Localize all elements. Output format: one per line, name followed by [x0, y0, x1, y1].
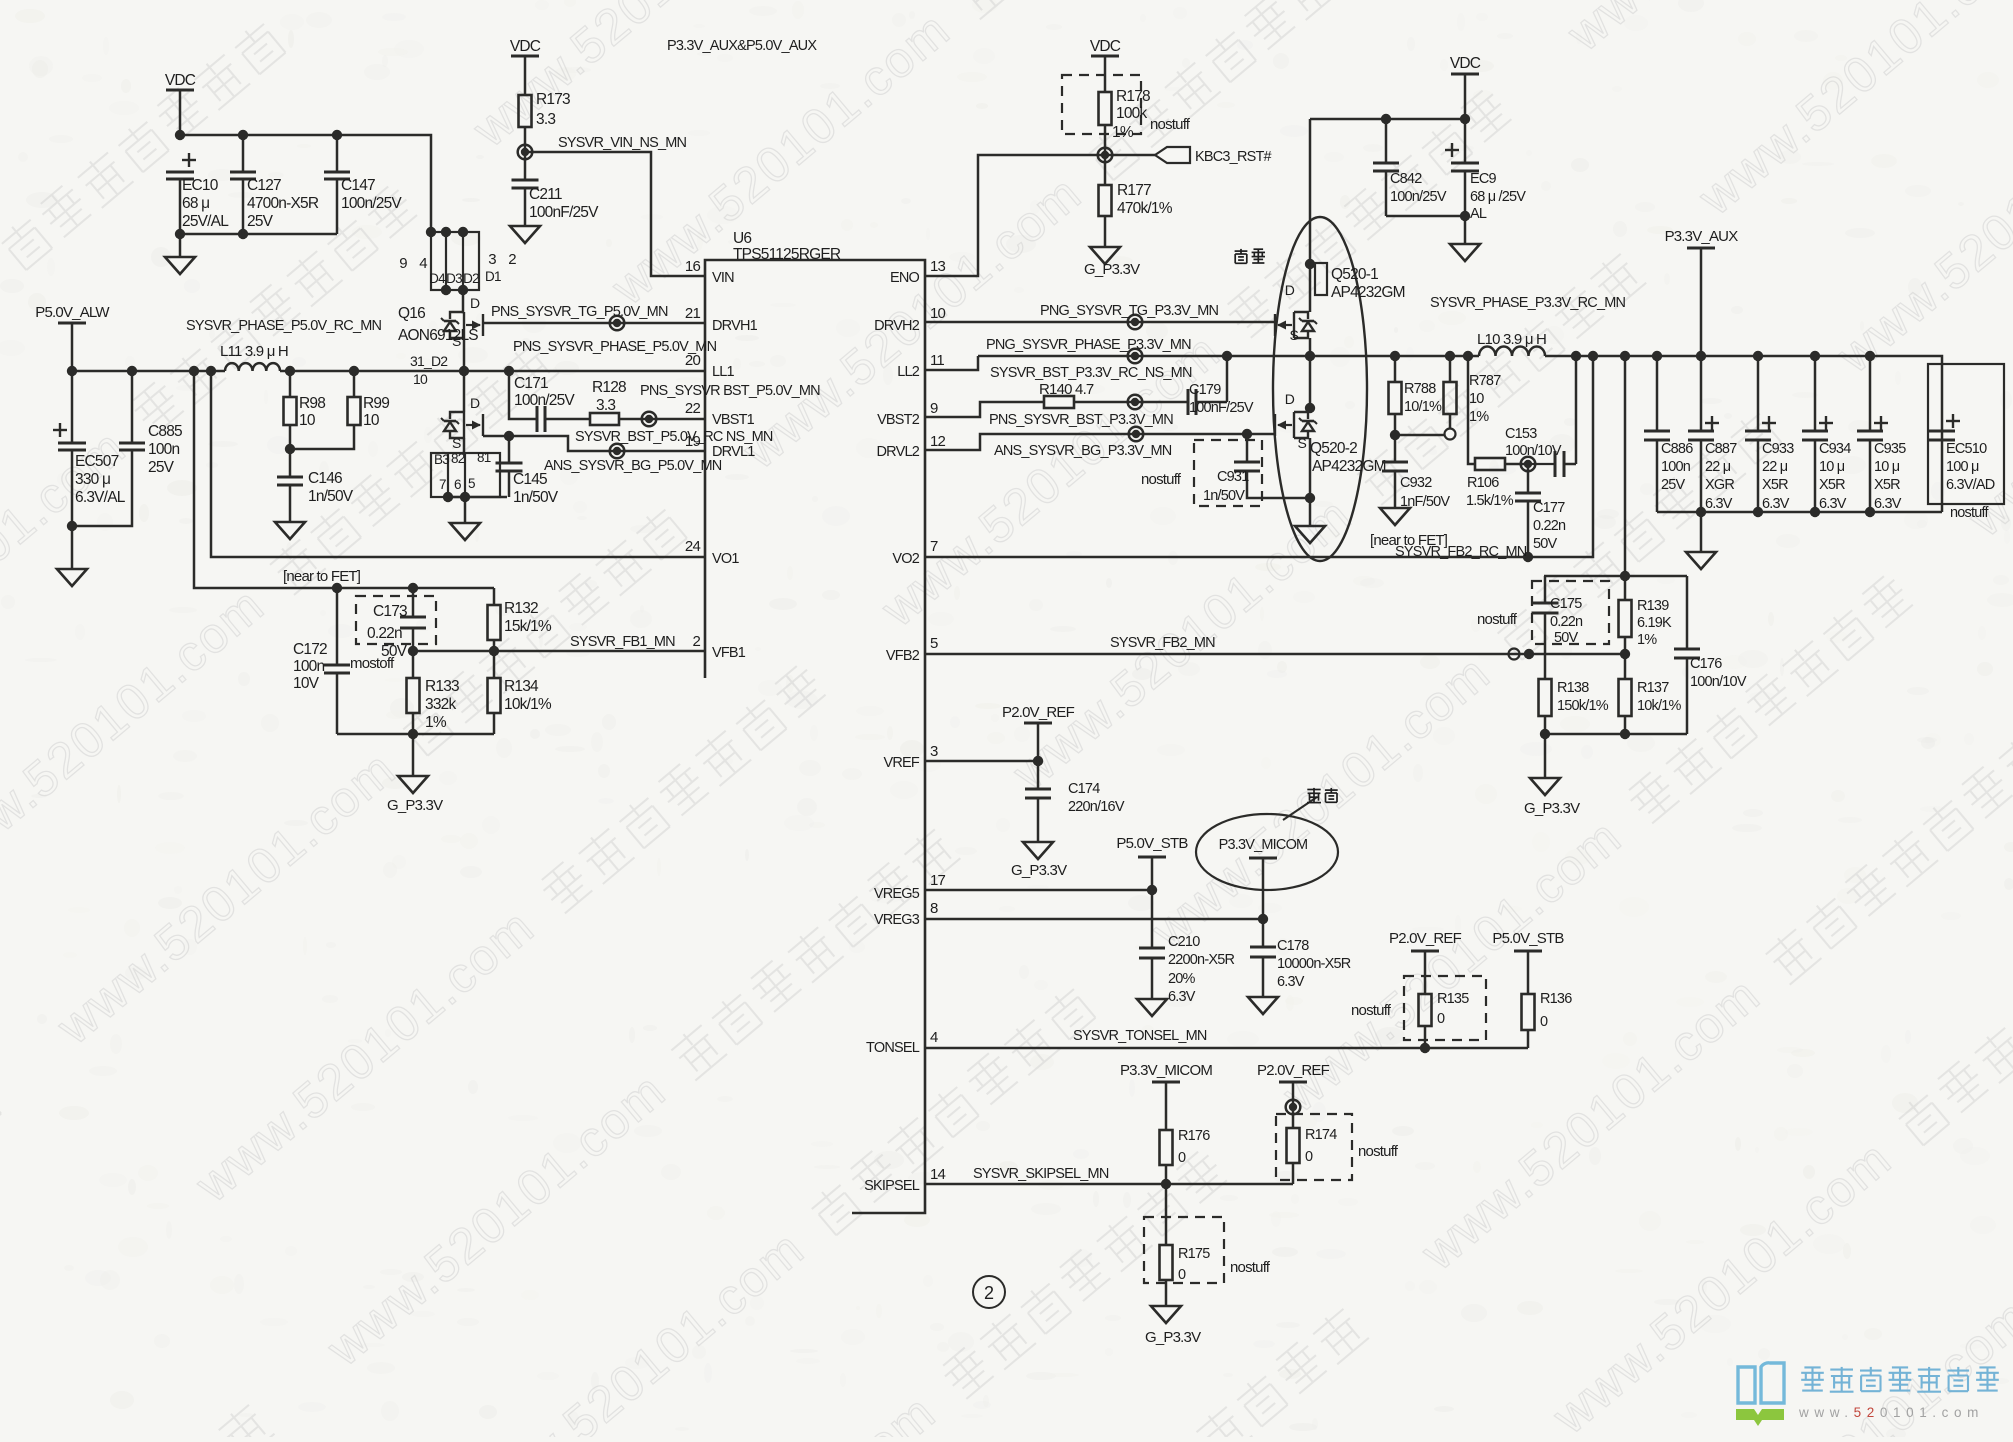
- svg-text:SYSVR_SKIPSEL_MN: SYSVR_SKIPSEL_MN: [973, 1166, 1109, 1182]
- wire R177 to ground: [1104, 216, 1107, 247]
- resistor R176 0: [1160, 1130, 1173, 1165]
- svg-text:0: 0: [1540, 1014, 1548, 1030]
- svg-text:R139: R139: [1637, 598, 1669, 614]
- junction dot R788 bottom: [1390, 430, 1400, 440]
- capacitor EC507 330u 6.3V/AL: [53, 423, 67, 437]
- junction dots on FB1 net: [408, 646, 418, 656]
- svg-text:SYSVR_FB1_MN: SYSVR_FB1_MN: [570, 634, 675, 650]
- svg-text:mostoff: mostoff: [350, 655, 395, 672]
- label duanlu short: [1307, 788, 1338, 803]
- op-amp U6 TPS51125RGER outline: [705, 260, 925, 1213]
- svg-text:C935: C935: [1874, 441, 1906, 457]
- wire VREF pin 3: [925, 760, 1038, 763]
- svg-text:100n: 100n: [148, 441, 179, 458]
- wire R99 to R98 bottom junction: [290, 425, 354, 449]
- svg-text:EC10: EC10: [182, 177, 219, 194]
- svg-text:VDC: VDC: [510, 38, 541, 55]
- svg-text:100n/25V: 100n/25V: [341, 195, 402, 212]
- svg-text:AP4232GM: AP4232GM: [1312, 458, 1386, 475]
- wire EC9 C842 bottom bus: [1386, 215, 1465, 218]
- svg-text:100n/10V: 100n/10V: [1690, 674, 1747, 690]
- svg-text:R133: R133: [425, 678, 459, 695]
- capacitor C175 0.22n 50V nostuff: [1544, 576, 1547, 603]
- svg-text:25V: 25V: [1661, 477, 1686, 493]
- wire FB2 bottom bus: [1544, 716, 1547, 734]
- svg-text:1%: 1%: [1469, 409, 1489, 425]
- svg-text:VO1: VO1: [712, 551, 739, 567]
- svg-text:VDC: VDC: [165, 72, 196, 89]
- junction dot R98/R99: [285, 444, 295, 454]
- ground below C174: [1023, 842, 1053, 859]
- svg-text:2: 2: [692, 633, 700, 650]
- wire output rail left of L11: [72, 370, 225, 373]
- label shaohui burned: [1235, 249, 1265, 263]
- svg-text:0.22n: 0.22n: [367, 625, 402, 642]
- ground below EC10: [165, 257, 195, 274]
- svg-text:10: 10: [413, 371, 428, 387]
- svg-text:6.3V: 6.3V: [1705, 496, 1733, 512]
- svg-text:100k: 100k: [1116, 105, 1147, 122]
- wire TONSEL pin 4 net: [925, 1047, 1528, 1050]
- svg-text:6.3V: 6.3V: [1277, 974, 1305, 990]
- wire R176 to SKIPSEL net: [1165, 1165, 1168, 1184]
- svg-text:SYSVR_VIN_NS_MN: SYSVR_VIN_NS_MN: [558, 135, 687, 151]
- wire top VDC bus: [180, 135, 431, 232]
- resistor R175 0 nostuff: [1160, 1245, 1173, 1280]
- svg-text:LL1: LL1: [712, 364, 735, 380]
- svg-text:D: D: [1285, 282, 1295, 298]
- svg-text:R176: R176: [1178, 1128, 1210, 1144]
- svg-text:6.3V/AL: 6.3V/AL: [75, 489, 126, 506]
- svg-text:PNS_SYSVR_BST_P3.3V_MN: PNS_SYSVR_BST_P3.3V_MN: [989, 412, 1173, 428]
- inductor L11 3.9uH: [225, 363, 280, 371]
- svg-text:L10 3.9 μ H: L10 3.9 μ H: [1477, 331, 1546, 348]
- resistor R788 10/1%: [1394, 356, 1397, 382]
- svg-text:VBST1: VBST1: [712, 412, 755, 428]
- svg-text:C210: C210: [1168, 934, 1200, 950]
- svg-text:6.19K: 6.19K: [1637, 615, 1672, 631]
- wire R98 bottom: [289, 425, 292, 449]
- junction dot EC9 bottom: [1460, 211, 1470, 221]
- svg-text:TONSEL: TONSEL: [866, 1040, 920, 1056]
- svg-text:VIN: VIN: [712, 270, 734, 286]
- resistor R787 10 1%: [1449, 356, 1452, 382]
- svg-text:150k/1%: 150k/1%: [1557, 698, 1609, 714]
- wire rail to R106: [1468, 356, 1475, 464]
- svg-text:332k: 332k: [425, 696, 456, 713]
- dashed box C175 nostuff: [1532, 581, 1609, 644]
- svg-text:1n/50V: 1n/50V: [513, 489, 559, 506]
- svg-text:3.3: 3.3: [596, 397, 615, 414]
- transistor Q16 high-side MOSFET: [441, 312, 483, 338]
- wire rail riser to FB2 divider top: [1624, 356, 1627, 576]
- wire DRVH1 gate net to pin 21: [483, 322, 706, 325]
- svg-text:D: D: [1285, 391, 1295, 407]
- ground G_P3.3V below FB2: [1530, 778, 1560, 795]
- svg-text:D3: D3: [446, 271, 462, 286]
- svg-text:2200n-X5R: 2200n-X5R: [1168, 952, 1234, 968]
- svg-text:1n/50V: 1n/50V: [1203, 488, 1245, 504]
- svg-text:R134: R134: [504, 678, 539, 695]
- wire cap bank bottom bus: [1657, 511, 1942, 514]
- resistor R136 0: [1522, 994, 1535, 1030]
- svg-text:D1: D1: [485, 269, 501, 284]
- svg-text:D: D: [470, 295, 480, 311]
- svg-text:25V: 25V: [148, 459, 175, 476]
- resistor R178 100k 1% nostuff: [1099, 92, 1112, 125]
- wire R788 bottom to C932: [1394, 414, 1397, 435]
- wire P3.3V_AUX to rail: [1700, 248, 1703, 356]
- wire P2.0V_REF to node: [1292, 1082, 1295, 1107]
- node ring on TG net: [610, 316, 625, 331]
- power bar P3.3V_MICOM: [1249, 857, 1277, 860]
- resistor R138 150k/1%: [1544, 654, 1547, 679]
- svg-text:[near to FET]: [near to FET]: [283, 568, 361, 585]
- svg-text:100 μ: 100 μ: [1946, 459, 1979, 475]
- svg-text:12: 12: [930, 433, 946, 450]
- svg-text:C173: C173: [373, 603, 407, 620]
- svg-text:1.5k/1%: 1.5k/1%: [1466, 493, 1514, 509]
- svg-text:R98: R98: [299, 395, 325, 412]
- svg-text:81: 81: [477, 450, 491, 465]
- wire LL2 pin 11 to phase rail: [925, 356, 978, 370]
- svg-text:R177: R177: [1117, 182, 1151, 199]
- wire to ground FB1: [412, 734, 415, 776]
- svg-text:0: 0: [1178, 1267, 1186, 1283]
- wire FB1 tap from rail: [194, 371, 494, 588]
- svg-text:R787: R787: [1469, 373, 1501, 389]
- svg-text:PNS_SYSVR_TG_P5.0V_MN: PNS_SYSVR_TG_P5.0V_MN: [491, 304, 668, 320]
- svg-text:5: 5: [930, 635, 938, 652]
- wire to ground under Q16: [464, 497, 467, 523]
- capacitor EC510 100u 6.3V/AD nostuff: [1946, 414, 1960, 428]
- svg-text:nostuff: nostuff: [1358, 1143, 1399, 1160]
- wire R140 to C179: [1074, 401, 1188, 404]
- junction dots on diode box top: [426, 227, 436, 237]
- junction dots on FB1 top wire: [332, 583, 342, 593]
- svg-text:SYSVR_PHASE_P3.3V_RC_MN: SYSVR_PHASE_P3.3V_RC_MN: [1430, 295, 1625, 311]
- svg-text:EC9: EC9: [1470, 171, 1497, 187]
- svg-text:0: 0: [1178, 1150, 1186, 1166]
- junction dot Q520 phase: [1305, 351, 1315, 361]
- capacitor C210 2200n-X5R 20% 6.3V: [1151, 890, 1154, 948]
- svg-text:22 μ: 22 μ: [1705, 459, 1731, 475]
- svg-text:X5R: X5R: [1762, 477, 1788, 493]
- junction dots on VDC bus: [175, 130, 185, 140]
- wire VDC to R173: [524, 56, 527, 95]
- svg-text:P2.0V_REF: P2.0V_REF: [1389, 930, 1462, 947]
- svg-text:22 μ: 22 μ: [1762, 459, 1788, 475]
- node SYSVR_VIN_NS_MN: [518, 145, 533, 160]
- svg-text:SYSVR_FB2_MN: SYSVR_FB2_MN: [1110, 635, 1215, 651]
- node ring P2.0V_REF: [1286, 1100, 1301, 1115]
- svg-text:B3: B3: [434, 452, 449, 467]
- capacitor C935 10u X5R 6.3V: [1874, 416, 1888, 430]
- svg-text:nostuff: nostuff: [1150, 116, 1191, 133]
- svg-text:C171: C171: [514, 375, 548, 392]
- svg-text:100n: 100n: [293, 658, 324, 675]
- svg-text:C177: C177: [1533, 500, 1565, 516]
- wire P3.3V_MICOM to VREG3 net: [1262, 858, 1265, 919]
- svg-text:LL2: LL2: [897, 364, 920, 380]
- capacitor C174 220n/16V: [1025, 789, 1051, 798]
- svg-text:100n/25V: 100n/25V: [1390, 189, 1447, 205]
- inductor L10 3.9uH: [1479, 347, 1545, 356]
- svg-text:14: 14: [930, 1166, 946, 1183]
- svg-text:SKIPSEL: SKIPSEL: [864, 1178, 920, 1194]
- svg-text:X5R: X5R: [1819, 477, 1845, 493]
- junction dot SKIPSEL: [1161, 1179, 1171, 1189]
- wire R174 to SKIPSEL net: [1292, 1163, 1295, 1184]
- svg-text:6.3V/AD: 6.3V/AD: [1946, 477, 1995, 493]
- ground below C178: [1248, 997, 1278, 1014]
- dashed box R175 nostuff: [1144, 1217, 1224, 1283]
- capacitor C211 100nF/25V: [524, 152, 527, 180]
- svg-text:SYSVR_BST_P3.3V_RC_NS_MN: SYSVR_BST_P3.3V_RC_NS_MN: [990, 365, 1192, 381]
- resistor R174 0 nostuff: [1292, 1107, 1295, 1128]
- wire Q520-1 source to rail: [1309, 338, 1312, 356]
- svg-text:PNS_SYSVR_PHASE_P5.0V_MN: PNS_SYSVR_PHASE_P5.0V_MN: [513, 339, 717, 355]
- svg-text:25V/AL: 25V/AL: [182, 213, 229, 230]
- wire phase rail L11 to pin 20 LL1: [280, 370, 706, 373]
- svg-text:100nF/25V: 100nF/25V: [529, 204, 599, 221]
- svg-text:VREG3: VREG3: [874, 912, 920, 928]
- wire R788 to R787 bottom link: [1395, 434, 1444, 437]
- node ring EN junction: [1098, 148, 1113, 163]
- ground G_P3.3V below R177: [1090, 247, 1120, 264]
- wire VO1 sense from rail to pin 24: [211, 371, 706, 557]
- capacitor C177 0.22n 50V: [1527, 464, 1530, 493]
- wire R173 to node: [524, 127, 527, 152]
- svg-text:82: 82: [451, 451, 465, 466]
- wire R135 to TONSEL net: [1424, 1026, 1427, 1048]
- wire Q520-2 source to ground: [1309, 438, 1312, 526]
- wire VO2 pin 7 remote sense: [925, 356, 1593, 557]
- svg-text:P3.3V_AUX&P5.0V_AUX: P3.3V_AUX&P5.0V_AUX: [667, 38, 817, 54]
- leader line to duanlu label: [1283, 797, 1317, 820]
- open ring VFB2: [1509, 649, 1520, 660]
- wire VFB2 pin 5 net: [925, 653, 1625, 656]
- svg-text:DRVH1: DRVH1: [712, 318, 758, 334]
- svg-text:Q520-2: Q520-2: [1310, 440, 1357, 457]
- junction dot VREG5: [1147, 885, 1157, 895]
- wire FB2 ground stem: [1544, 734, 1547, 778]
- resistor R139 6.19K 1%: [1624, 576, 1627, 600]
- wire R106 to C153 node: [1505, 463, 1531, 466]
- logo text jiadian weixiu ziliao wang: [1801, 1367, 1999, 1392]
- capacitor C172 100n 10V: [336, 588, 339, 665]
- svg-text:VDC: VDC: [1090, 38, 1121, 55]
- svg-text:68 μ: 68 μ: [182, 195, 209, 212]
- svg-text:U6: U6: [733, 230, 751, 247]
- wire P2.0V_REF to R135: [1424, 951, 1427, 994]
- svg-text:C932: C932: [1400, 475, 1432, 491]
- svg-text:100nF/25V: 100nF/25V: [1189, 400, 1254, 416]
- capacitor C933 22u X5R 6.3V: [1762, 416, 1776, 430]
- svg-text:6: 6: [454, 477, 461, 492]
- wire R139 to VFB2 net: [1624, 637, 1627, 654]
- wire VDC right to bus: [1464, 74, 1467, 119]
- svg-text:21: 21: [685, 305, 701, 322]
- junction dot C177 on FB2_RC: [1523, 552, 1533, 562]
- capacitor C145 1n/50V: [508, 436, 511, 463]
- wire cap bank ground stem: [1700, 512, 1703, 552]
- svg-text:10k/1%: 10k/1%: [504, 696, 552, 713]
- svg-text:1%: 1%: [425, 714, 447, 731]
- wire FB2 divider top bus: [1544, 575, 1687, 578]
- wire VDC top bus to Q520-1 drain: [1309, 119, 1312, 312]
- svg-text:P5.0V_STB: P5.0V_STB: [1492, 930, 1564, 947]
- wire DRVL1 gate net: [483, 436, 706, 451]
- resistor R133 332k 1%: [412, 651, 415, 678]
- capacitor C146 1n/50V: [289, 449, 292, 477]
- capacitor C932 1nF/50V: [1394, 435, 1397, 462]
- junction dots on diode box bottom: [441, 285, 451, 295]
- svg-text:G_P3.3V: G_P3.3V: [1011, 862, 1067, 879]
- ground below EC9: [1450, 244, 1480, 261]
- svg-text:DRVL2: DRVL2: [877, 444, 920, 460]
- resistor R177 470k/1%: [1104, 155, 1107, 185]
- svg-text:Q520-1: Q520-1: [1331, 266, 1378, 283]
- capacitor C179 100nF/25V: [1188, 389, 1196, 415]
- svg-text:nostuff: nostuff: [1477, 611, 1518, 628]
- svg-text:KBC3_RST#: KBC3_RST#: [1195, 149, 1272, 165]
- svg-text:3: 3: [488, 251, 496, 268]
- junction dot VREG3: [1258, 914, 1268, 924]
- wire Q16 high-side source to phase rail: [463, 338, 466, 371]
- junction dots top right bus: [1381, 114, 1391, 124]
- capacitor C178 10000n-X5R 6.3V: [1262, 919, 1265, 947]
- svg-text:6.3V: 6.3V: [1168, 989, 1196, 1005]
- wire ENO pin 13 to EN node: [925, 155, 1155, 276]
- ground below C211: [510, 226, 540, 243]
- svg-text:8: 8: [930, 900, 938, 917]
- wire DRVL2 pin 12 jog to Q520-2 gate: [925, 434, 1274, 450]
- transistor Q520-2 AP4232GM: [1275, 412, 1317, 438]
- resistor R106 1.5k/1%: [1475, 458, 1505, 470]
- svg-text:nostuff: nostuff: [1950, 505, 1989, 521]
- capacitor C886 100n 25V: [1656, 356, 1659, 431]
- svg-text:VREF: VREF: [884, 755, 920, 771]
- via node C153: [1521, 457, 1536, 472]
- capacitor EC9 68u/25V: [1445, 143, 1459, 157]
- svg-text:50V: 50V: [1533, 536, 1558, 552]
- capacitor C171 100n/25V bootstrap: [509, 371, 537, 419]
- svg-text:10: 10: [299, 412, 316, 429]
- node ring on PHASE2 net: [1128, 349, 1143, 364]
- junction dots FB2 bottom: [1540, 729, 1550, 739]
- wire VREG3 pin 8 net: [925, 918, 1263, 921]
- wire VDC to bus: [179, 90, 182, 135]
- svg-text:D2: D2: [463, 271, 479, 286]
- svg-text:R788: R788: [1404, 381, 1436, 397]
- svg-text:3: 3: [930, 743, 938, 760]
- svg-text:R137: R137: [1637, 680, 1669, 696]
- wire R132 to FB1 net: [493, 640, 496, 651]
- ground G_P3.3V below FB1: [398, 776, 428, 793]
- svg-text:10k/1%: 10k/1%: [1637, 698, 1681, 714]
- wire DRVH2 pin 10 to Q520-1 gate: [925, 321, 1274, 324]
- svg-text:PNG_SYSVR_TG_P3.3V_MN: PNG_SYSVR_TG_P3.3V_MN: [1040, 303, 1219, 319]
- node ring on BG net: [610, 444, 625, 459]
- ground below C210: [1137, 999, 1167, 1016]
- wire C153 to rail riser: [1575, 356, 1578, 464]
- svg-text:DRVH2: DRVH2: [874, 318, 920, 334]
- capacitor C842 100n/25V: [1385, 119, 1388, 163]
- wire P3.3V_MICOM to R176: [1165, 1082, 1168, 1130]
- node ring on BST2 net: [1128, 395, 1143, 410]
- wire Q16 low-side source to package box: [463, 438, 466, 453]
- svg-text:XGR: XGR: [1705, 477, 1734, 493]
- svg-text:10: 10: [930, 305, 946, 322]
- svg-text:20%: 20%: [1168, 971, 1196, 987]
- svg-text:VFB2: VFB2: [886, 648, 920, 664]
- svg-text:C934: C934: [1819, 441, 1851, 457]
- resistor R128 3.3: [590, 413, 619, 425]
- svg-text:C933: C933: [1762, 441, 1794, 457]
- svg-text:16: 16: [685, 258, 701, 275]
- capacitor EC10 68u 25V/AL: [182, 153, 196, 167]
- capacitor C934 10u X5R 6.3V: [1819, 416, 1833, 430]
- svg-text:100n/25V: 100n/25V: [514, 392, 575, 409]
- svg-text:EC510: EC510: [1946, 441, 1987, 457]
- ground below cap bank: [1686, 552, 1716, 569]
- svg-text:0: 0: [1437, 1011, 1445, 1027]
- svg-text:C176: C176: [1690, 656, 1722, 672]
- svg-text:C127: C127: [247, 177, 281, 194]
- wire R178 to EN node: [1104, 125, 1107, 155]
- svg-text:P3.3V_MICOM: P3.3V_MICOM: [1120, 1062, 1212, 1079]
- wire VBST2 pin 9 jog: [925, 402, 1044, 417]
- svg-text:TPS51125RGER: TPS51125RGER: [733, 246, 841, 263]
- junction dot VREF: [1033, 756, 1043, 766]
- ellipse short-circuit mark: [1196, 814, 1338, 890]
- svg-text:R136: R136: [1540, 991, 1572, 1007]
- svg-text:R99: R99: [363, 395, 389, 412]
- capacitor C127 4700n-X5R 25V: [242, 135, 245, 172]
- svg-text:17: 17: [930, 872, 946, 889]
- svg-text:0: 0: [1305, 1149, 1313, 1165]
- resistor R137 10k/1%: [1624, 654, 1627, 679]
- svg-text:SYSVR_PHASE_P5.0V_RC_MN: SYSVR_PHASE_P5.0V_RC_MN: [186, 318, 381, 334]
- svg-text:10: 10: [1469, 391, 1484, 407]
- wire R136 to TONSEL net: [1527, 1030, 1530, 1048]
- wire output rail after L10: [1545, 356, 1942, 512]
- ground G_P3.3V below R175: [1151, 1306, 1181, 1323]
- junction dot divider top: [1620, 571, 1630, 581]
- svg-text:Q16: Q16: [398, 305, 425, 322]
- wire R128 to pin 22 VBST1: [619, 418, 706, 421]
- svg-text:4700n-X5R: 4700n-X5R: [247, 195, 319, 212]
- wire package box bottom bus: [448, 496, 507, 499]
- wire Q16 low-side drain from phase rail: [463, 371, 466, 412]
- svg-text:5: 5: [468, 476, 475, 491]
- resistor R132 15k/1%: [493, 588, 496, 605]
- svg-text:G_P3.3V: G_P3.3V: [1084, 261, 1140, 278]
- svg-text:L11 3.9 μ H: L11 3.9 μ H: [220, 343, 288, 360]
- junction dot C931 tap: [1242, 429, 1252, 439]
- junction dots cap bank bottom: [1696, 507, 1706, 517]
- svg-text:C172: C172: [293, 641, 327, 658]
- svg-text:220n/16V: 220n/16V: [1068, 799, 1125, 815]
- svg-text:R174: R174: [1305, 1127, 1337, 1143]
- svg-text:2: 2: [984, 1283, 994, 1303]
- svg-text:C175: C175: [1550, 596, 1582, 612]
- svg-text:0.22n: 0.22n: [1533, 518, 1566, 534]
- package box B3 82 81 / 7 6 5: [431, 453, 500, 497]
- wire R175 to ground: [1165, 1280, 1168, 1306]
- svg-text:SYSVR_FB2_RC_MN: SYSVR_FB2_RC_MN: [1395, 544, 1527, 560]
